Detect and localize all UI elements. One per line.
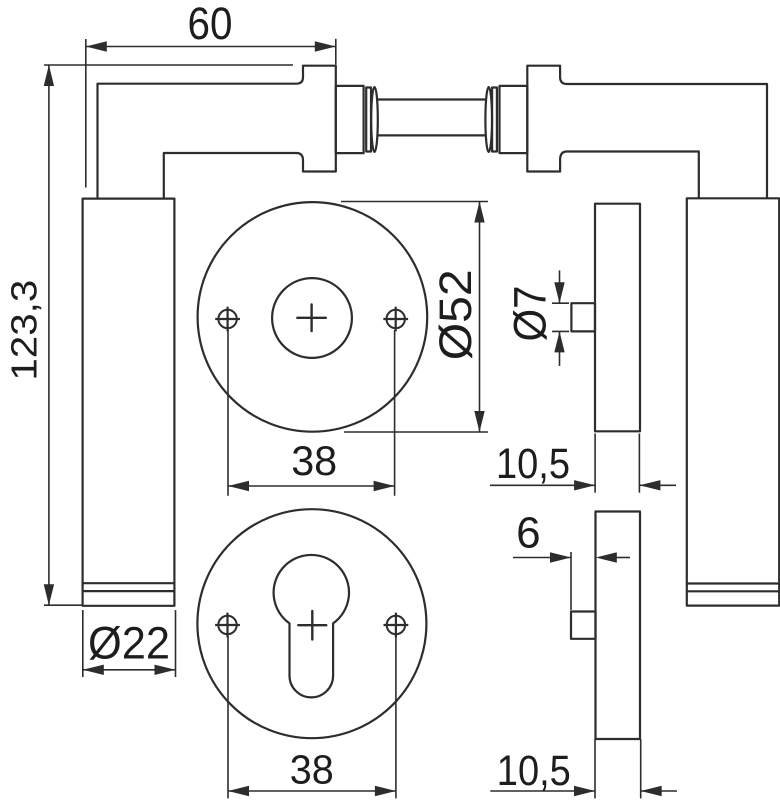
bottom rosette outer circle xyxy=(197,509,426,738)
svg-text:6: 6 xyxy=(516,509,540,558)
top rosette center cross xyxy=(297,304,326,331)
spindle xyxy=(378,98,486,100)
left grip tube xyxy=(83,199,175,606)
right ring lens xyxy=(485,87,492,152)
top side screw lug xyxy=(571,303,595,331)
bottom side plate (side view of rosette) xyxy=(596,512,641,740)
left grip end band xyxy=(83,582,175,584)
right handle neck and collar (plan view) xyxy=(527,66,767,199)
dimension O22 xyxy=(83,610,176,677)
svg-text:10,5: 10,5 xyxy=(496,440,570,488)
bottom rosette screw right xyxy=(384,613,409,638)
svg-text:60: 60 xyxy=(188,0,233,49)
dimension 38 bottom xyxy=(228,636,396,798)
top rosette handle hole xyxy=(272,278,352,358)
dimension 60 xyxy=(86,39,336,188)
dimension 123,3 xyxy=(44,65,293,605)
left handle neck and collar (plan view) xyxy=(98,66,336,199)
left bearing ring xyxy=(366,88,371,152)
left ring lens xyxy=(371,87,378,152)
top rosette screw right xyxy=(383,307,408,332)
bottom rosette screw left xyxy=(215,613,240,638)
top rosette screw left xyxy=(215,307,240,332)
right bearing ring xyxy=(492,88,497,152)
right grip end band xyxy=(687,582,779,584)
top rosette outer circle xyxy=(198,202,428,432)
bottom rosette euro keyhole xyxy=(274,555,349,697)
dimension 10,5 bottom xyxy=(490,739,677,798)
dimension 10,5 top xyxy=(490,434,676,493)
top side plate (side view of rosette) xyxy=(595,204,640,432)
svg-text:Ø22: Ø22 xyxy=(88,618,170,669)
bottom rosette center cross xyxy=(298,611,326,640)
dimension O7 xyxy=(552,270,569,366)
svg-text:Ø52: Ø52 xyxy=(430,269,481,360)
bottom side screw lug xyxy=(571,612,596,639)
svg-text:10,5: 10,5 xyxy=(497,747,571,795)
svg-text:38: 38 xyxy=(291,437,337,484)
svg-text:38: 38 xyxy=(290,746,334,792)
dimension O52 xyxy=(341,202,488,433)
right rose disc (edge view) xyxy=(500,86,528,153)
left rose disc (edge view) xyxy=(336,86,364,153)
right grip tube xyxy=(687,198,779,605)
svg-text:123,3: 123,3 xyxy=(4,280,45,381)
dimension 6 xyxy=(513,552,630,610)
svg-text:Ø7: Ø7 xyxy=(505,286,556,342)
dimension 38 top xyxy=(228,330,395,496)
